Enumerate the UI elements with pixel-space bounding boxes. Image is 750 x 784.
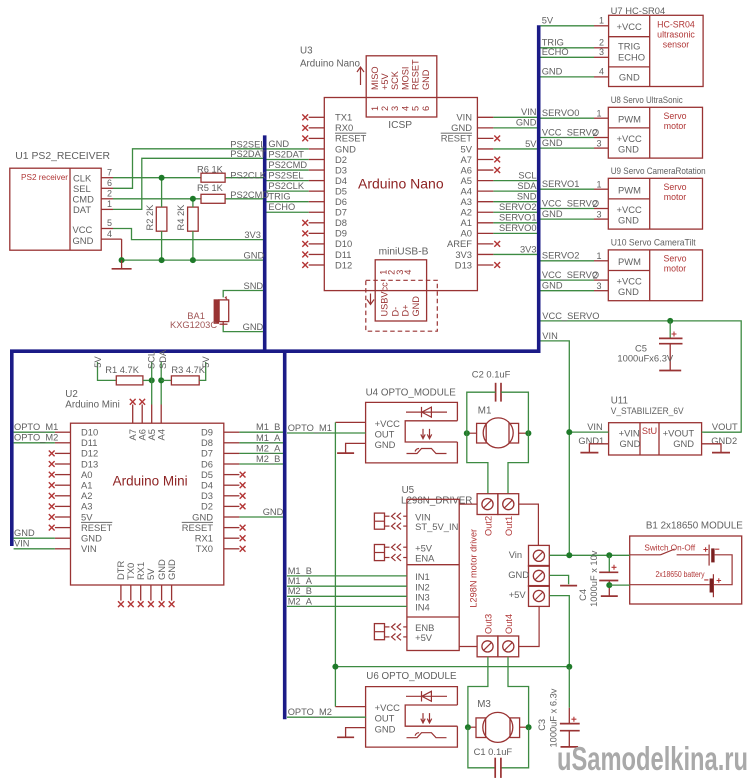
svg-text:D4: D4 xyxy=(335,175,347,186)
svg-text:+VCC: +VCC xyxy=(375,418,400,429)
junction +5V rail / right rail xyxy=(566,664,572,670)
svg-text:U4 OPTO_MODULE: U4 OPTO_MODULE xyxy=(366,387,457,398)
svg-text:A4: A4 xyxy=(155,429,166,440)
wire net GND to U2 GND xyxy=(14,537,55,539)
IC U2 Arduino Mini body xyxy=(71,423,224,585)
U8 pin 3 stub xyxy=(594,147,608,149)
svg-text:RESET: RESET xyxy=(335,133,367,144)
svg-text:GND: GND xyxy=(542,281,563,291)
buzzer BA1 KXG1203C xyxy=(214,299,219,324)
x-mark unconnected U2 left pin 5V xyxy=(49,514,55,520)
wire net Vin rail to battery xyxy=(549,554,629,556)
U2 bottom pin stub RX1 xyxy=(140,585,142,601)
svg-text:U3: U3 xyxy=(300,46,313,57)
x-mark unconnected U2 right pin RESET xyxy=(240,525,246,531)
svg-text:L298N_DRIVER: L298N_DRIVER xyxy=(401,496,472,507)
optocoupler module U4 body xyxy=(366,402,458,463)
wire M1 right to C2 xyxy=(501,392,528,433)
svg-text:D7: D7 xyxy=(335,207,347,218)
svg-text:M1_B: M1_B xyxy=(288,566,312,576)
wire +5V terminal down rail xyxy=(549,596,569,667)
svg-text:D13: D13 xyxy=(455,259,472,270)
svg-text:StU: StU xyxy=(642,426,657,436)
wire net 5V to U7 pin 1 xyxy=(541,25,595,27)
svg-text:TRIG: TRIG xyxy=(542,38,564,48)
svg-text:OPTO_M2: OPTO_M2 xyxy=(288,707,332,717)
svg-text:motor: motor xyxy=(664,263,687,273)
ICSP header box on U3 xyxy=(366,56,437,117)
U3 pin stub D11 xyxy=(309,253,325,255)
resistor R2 2K (pull-down) xyxy=(156,207,167,231)
x-mark unconnected U2 left pin D13 xyxy=(49,461,55,467)
U2 bottom pin stub DTR xyxy=(120,585,122,601)
wire net VIN to U2 VIN xyxy=(14,548,55,550)
svg-text:SERVO0: SERVO0 xyxy=(499,223,537,233)
U2 pin stub A1 (left) xyxy=(55,484,71,486)
svg-text:4: 4 xyxy=(107,229,112,239)
svg-text:sensor: sensor xyxy=(663,40,689,50)
screw terminal Out2 xyxy=(477,494,498,515)
svg-text:1: 1 xyxy=(597,180,602,190)
wire M1 right to Out1 xyxy=(508,433,528,494)
svg-text:5V: 5V xyxy=(461,143,473,154)
svg-text:PS2CLK: PS2CLK xyxy=(230,171,266,181)
wire net GND from U3 GND xyxy=(493,127,537,129)
svg-text:R1 4.7K: R1 4.7K xyxy=(105,365,139,375)
screw terminal Out1 xyxy=(498,494,519,515)
U10 pin 2 stub xyxy=(594,279,608,281)
svg-text:GND: GND xyxy=(263,507,284,517)
U3 pin stub 5V xyxy=(477,148,493,150)
U3 pin stub A5 xyxy=(477,180,493,182)
x-mark unconnected U2 right pin TX0 xyxy=(240,546,246,552)
svg-text:VOUT: VOUT xyxy=(712,422,738,432)
svg-text:ECHO: ECHO xyxy=(618,51,645,62)
svg-text:GND: GND xyxy=(243,322,264,332)
svg-text:SND: SND xyxy=(244,281,264,291)
svg-text:A6: A6 xyxy=(461,164,472,175)
U3 pin stub D13 xyxy=(477,264,493,266)
wire net PS2SEL from U1 SEL xyxy=(113,149,263,189)
U2 pin stub D8 (right) xyxy=(224,442,240,444)
svg-text:SDA: SDA xyxy=(517,181,537,191)
svg-text:3: 3 xyxy=(390,106,400,111)
U3 pin stub D12 xyxy=(309,264,325,266)
svg-text:3: 3 xyxy=(597,139,602,149)
U6 photo-transistor symbol xyxy=(407,733,447,738)
svg-text:3V3: 3V3 xyxy=(520,244,537,254)
wire net OPTO_M1 to U2 D10 xyxy=(14,431,55,433)
U5 pin stub + chevrons ST_5V_IN xyxy=(403,525,407,527)
svg-text:PS2SEL: PS2SEL xyxy=(230,140,265,150)
battery cell2 wire to box edge xyxy=(630,584,710,586)
svg-text:M2_A: M2_A xyxy=(256,443,281,453)
svg-text:PWM: PWM xyxy=(618,185,641,196)
wire net VIN from U3 VIN xyxy=(493,116,537,118)
wire net SERVO0 to U8 pin 1 xyxy=(541,117,595,119)
svg-text:M2_B: M2_B xyxy=(256,454,280,464)
svg-text:1: 1 xyxy=(597,109,602,119)
wire net 3V3 from U1 VCC xyxy=(113,229,263,240)
svg-text:C3: C3 xyxy=(537,719,547,731)
U5 pin stub + chevrons +5V xyxy=(403,636,407,638)
svg-text:A1: A1 xyxy=(81,480,92,491)
x-mark unconnected U2 bottom pin RX1 xyxy=(138,601,144,607)
U10 pin 3 stub xyxy=(594,290,608,292)
svg-text:VCC: VCC xyxy=(73,224,93,235)
wire +5V horizontal rail xyxy=(335,666,569,668)
svg-text:D3: D3 xyxy=(335,164,347,175)
svg-text:DAT: DAT xyxy=(73,204,91,215)
U2 pin stub A0 (left) xyxy=(55,474,71,476)
svg-text:TX1: TX1 xyxy=(335,112,352,123)
wire net SERVO2 from U3 A2 xyxy=(493,211,537,213)
svg-text:U1 PS2_RECEIVER: U1 PS2_RECEIVER xyxy=(15,151,110,162)
svg-text:R6 1K: R6 1K xyxy=(197,164,224,174)
wire net M2_B from U2 D6 xyxy=(239,463,283,465)
svg-text:KXG1203C: KXG1203C xyxy=(170,320,217,330)
svg-text:3: 3 xyxy=(599,47,604,57)
driver U5 L298N body xyxy=(407,499,459,650)
svg-text:Out1: Out1 xyxy=(504,516,514,536)
svg-text:Vin: Vin xyxy=(509,549,522,560)
sheet frame: vertical navy border left of Arduino Nano sheet xyxy=(263,135,267,351)
svg-text:D5: D5 xyxy=(335,185,347,196)
svg-text:5V: 5V xyxy=(81,511,93,522)
x-mark unconnected U3 left pin D8 xyxy=(302,220,308,226)
x-mark unconnected U3 right pin RESET xyxy=(494,136,500,142)
wire SDA rail to R3 xyxy=(161,379,171,381)
junction R4 bottom on GND wire xyxy=(190,257,196,263)
svg-text:VCC_SERVO: VCC_SERVO xyxy=(542,198,599,208)
U5 pin stub + chevrons ENA xyxy=(403,557,407,559)
svg-text:GND: GND xyxy=(244,250,265,260)
x-mark unconnected U2 right pin D5 xyxy=(240,472,246,478)
svg-text:1: 1 xyxy=(370,106,380,111)
U6 light arrows xyxy=(421,713,432,723)
svg-text:RESET: RESET xyxy=(441,133,473,144)
wire U6 +VCC to vertical rail xyxy=(335,706,366,708)
wire net PS2CMD from U1 CMD xyxy=(113,198,201,200)
U2 pin stub D6 (right) xyxy=(224,463,240,465)
svg-text:uSamodelkina.ru: uSamodelkina.ru xyxy=(557,740,748,777)
screw terminal +5V xyxy=(529,586,550,607)
net SCL rail (rotated label) xyxy=(151,362,153,405)
svg-text:6: 6 xyxy=(107,178,112,188)
wire M1 left to C2 xyxy=(467,392,496,433)
wire M3 right to C1 xyxy=(501,727,529,768)
svg-text:motor: motor xyxy=(664,121,687,131)
svg-text:PS2DAT: PS2DAT xyxy=(230,149,266,159)
U2 pin stub A3 (left) xyxy=(55,505,71,507)
wire net M2_A to U5 xyxy=(287,605,407,607)
x-mark unconnected U3 right pin A6 xyxy=(494,167,500,173)
svg-text:U9 Servo CameraRotation: U9 Servo CameraRotation xyxy=(611,166,706,176)
U11 GND1 pin + ground symbol xyxy=(589,444,608,453)
svg-text:+5V: +5V xyxy=(509,589,527,600)
wire battery minus to C4 xyxy=(609,584,629,586)
U3 pin stub RESET xyxy=(309,137,325,139)
svg-text:Arduino Mini: Arduino Mini xyxy=(65,400,119,411)
svg-text:5: 5 xyxy=(411,106,421,111)
svg-text:M1: M1 xyxy=(478,406,492,417)
svg-text:PS2SEL: PS2SEL xyxy=(268,170,303,180)
wire net GND to U9 pin 3 xyxy=(541,218,595,220)
screw terminal Out3 xyxy=(477,636,498,657)
U3 pin stub GND xyxy=(309,148,325,150)
U2 pin stub D7 (right) xyxy=(224,452,240,454)
resistor R4 2K (pull-down) xyxy=(188,207,199,231)
U3 pin stub A6 xyxy=(477,169,493,171)
wire net GND to U3 GND xyxy=(267,148,309,150)
U3 pin stub RESET xyxy=(477,137,493,139)
svg-text:V_STABILIZER_6V: V_STABILIZER_6V xyxy=(611,406,685,416)
x-mark unconnected U3 right pin A7 xyxy=(494,157,500,163)
svg-text:CLK: CLK xyxy=(73,172,92,183)
U2 top pin stub A5 xyxy=(151,405,153,424)
U8 pin 1 stub xyxy=(594,117,608,119)
U2 pin stub D11 (left) xyxy=(55,442,71,444)
wire net ECHO to U3 D7 xyxy=(267,211,309,213)
wire net SDA from U3 A4 xyxy=(493,190,537,192)
x-mark unconnected U3 left pin D11 xyxy=(302,252,308,258)
svg-text:D+: D+ xyxy=(400,304,410,316)
svg-text:GND: GND xyxy=(268,139,289,149)
svg-text:R5 1K: R5 1K xyxy=(197,183,224,193)
svg-text:5V: 5V xyxy=(542,16,554,26)
svg-text:+VCC: +VCC xyxy=(617,204,642,215)
svg-text:D8: D8 xyxy=(201,437,213,448)
U11 pin VIN wire xyxy=(569,431,608,433)
wire net 5V from U3 5V xyxy=(493,148,537,150)
svg-text:CMD: CMD xyxy=(73,193,95,204)
svg-text:B1 2x18650 MODULE: B1 2x18650 MODULE xyxy=(646,521,743,532)
ground symbol below U1 pin 4 xyxy=(121,260,123,268)
U3 pin stub D7 xyxy=(309,211,325,213)
svg-text:5V: 5V xyxy=(145,568,156,580)
U4 light arrows xyxy=(421,429,432,439)
svg-text:MOSI: MOSI xyxy=(400,67,410,90)
jumper connector at U5 VIN/ST_5V_IN xyxy=(374,513,384,529)
svg-text:motor: motor xyxy=(664,192,687,202)
x-mark unconnected U2 pin A6 xyxy=(139,399,145,405)
svg-text:D7: D7 xyxy=(201,448,213,459)
svg-text:MISO: MISO xyxy=(370,67,380,90)
U3 pin stub A7 xyxy=(477,159,493,161)
IC U3 Arduino Nano body xyxy=(324,98,477,291)
wire Out4 to +5V terminal xyxy=(519,606,539,646)
svg-text:A3: A3 xyxy=(461,196,472,207)
svg-text:VCC_SERVO: VCC_SERVO xyxy=(542,270,599,280)
U3 pin stub A4 xyxy=(477,190,493,192)
svg-text:GND: GND xyxy=(192,511,213,522)
svg-text:SERVO0: SERVO0 xyxy=(542,108,580,118)
U2 top pin stub A6 xyxy=(141,405,143,424)
wire net 3V3 from U3 3V3 xyxy=(493,253,537,255)
svg-text:5: 5 xyxy=(107,218,112,228)
U11 VOUT pin wire xyxy=(702,431,742,433)
wire net PS2DAT from U1 DAT xyxy=(113,158,263,209)
wire net SCL from U3 A5 xyxy=(493,180,537,182)
U9 pin 3 stub xyxy=(594,218,608,220)
svg-text:A2: A2 xyxy=(461,207,472,218)
U11 GND2 pin + ground symbol xyxy=(702,444,721,453)
wire net PS2CMD to U3 D3 xyxy=(267,169,309,171)
U10 pin 1 stub xyxy=(594,260,608,262)
svg-text:1: 1 xyxy=(599,16,604,26)
wire net VCC_SERVO to U9 pin 2 xyxy=(541,208,595,210)
svg-text:1000uF x 6.3v: 1000uF x 6.3v xyxy=(548,688,558,747)
svg-text:GND: GND xyxy=(618,286,639,297)
svg-text:A1: A1 xyxy=(461,217,472,228)
U8 pin 2 stub xyxy=(594,137,608,139)
svg-text:D12: D12 xyxy=(81,448,98,459)
wire net GND from buzzer xyxy=(223,326,263,332)
U2 pin stub D5 (right) xyxy=(224,474,240,476)
svg-text:1: 1 xyxy=(597,251,602,261)
svg-text:SCL: SCL xyxy=(147,351,157,369)
resistor R3 4.7K xyxy=(171,376,199,385)
servo module U8 body xyxy=(608,107,702,158)
svg-text:RESET: RESET xyxy=(411,59,421,90)
U7 pin 3 stub xyxy=(594,56,609,58)
svg-text:3: 3 xyxy=(597,210,602,220)
svg-text:D8: D8 xyxy=(335,217,347,228)
svg-text:U10 Servo CameraTilt: U10 Servo CameraTilt xyxy=(611,237,696,247)
svg-text:D6: D6 xyxy=(201,458,213,469)
junction M3 right xyxy=(526,724,532,730)
svg-text:Out2: Out2 xyxy=(484,516,494,536)
svg-text:PS2CMD: PS2CMD xyxy=(230,190,269,200)
motor M1 (circle + terminals) xyxy=(477,423,487,443)
svg-text:+VIN: +VIN xyxy=(619,428,640,439)
junction R2 bottom on GND wire xyxy=(159,257,165,263)
svg-text:VCC_SERVO: VCC_SERVO xyxy=(542,311,599,321)
U2 bottom pin stub 5V xyxy=(150,585,152,601)
U7 pin 4 stub xyxy=(594,76,609,78)
U3 pin stub D4 xyxy=(309,180,325,182)
junction SDA at R3 xyxy=(158,377,164,383)
svg-text:SCL: SCL xyxy=(518,170,536,180)
svg-text:GND1: GND1 xyxy=(578,436,604,446)
x-mark unconnected U2 left pin A2 xyxy=(49,493,55,499)
svg-text:6: 6 xyxy=(421,106,431,111)
U2 pin stub A2 (left) xyxy=(55,495,71,497)
svg-text:RX0: RX0 xyxy=(335,122,353,133)
U9 pin 1 stub xyxy=(594,188,608,190)
svg-text:HC-SR04: HC-SR04 xyxy=(657,20,695,30)
miniUSB-B dashed outline xyxy=(366,280,438,331)
x-mark unconnected U3 right pin D13 xyxy=(494,262,500,268)
U3 pin stub D8 xyxy=(309,222,325,224)
U3 pin stub D10 xyxy=(309,243,325,245)
net stub 5V (right, rotated label) xyxy=(199,362,206,380)
svg-text:M2_A: M2_A xyxy=(288,596,313,606)
U2 pin stub D4 (right) xyxy=(224,484,240,486)
svg-text:SERVO2: SERVO2 xyxy=(542,251,580,261)
x-mark unconnected U2 bottom pin DTR xyxy=(118,601,124,607)
U3 pin stub A1 xyxy=(477,222,493,224)
svg-text:GND: GND xyxy=(375,723,396,734)
U1 pin 2 stub (CMD) xyxy=(101,198,113,200)
svg-text:D2: D2 xyxy=(335,154,347,165)
battery cell 2 (bottom) xyxy=(712,574,714,597)
wire net OPTO_M2 to U6 OUT xyxy=(287,716,366,718)
svg-text:2: 2 xyxy=(107,189,112,199)
U6 GND pin wire + ground symbol xyxy=(346,728,366,737)
x-mark unconnected U2 bottom pin GND xyxy=(159,601,165,607)
svg-text:ECHO: ECHO xyxy=(542,47,569,57)
svg-text:5V: 5V xyxy=(93,356,103,368)
jumper connector at U5 ENB/+5V xyxy=(374,624,384,640)
svg-text:VIN: VIN xyxy=(14,539,30,549)
U5 pin stub + chevrons +5V xyxy=(403,546,407,548)
svg-text:M1_A: M1_A xyxy=(256,433,281,443)
svg-text:GND: GND xyxy=(618,144,639,155)
U3 pin stub D9 xyxy=(309,232,325,234)
svg-text:SND: SND xyxy=(517,192,537,202)
x-mark unconnected U3 left pin RX0 xyxy=(302,125,308,131)
U7 pin 2 stub xyxy=(594,47,609,49)
svg-text:5V: 5V xyxy=(201,356,211,368)
svg-text:D-: D- xyxy=(390,307,400,317)
U6 LED diode symbol xyxy=(406,691,447,701)
U3 pin stub AREF xyxy=(477,243,493,245)
junction R4 top on PS2CMD wire xyxy=(190,196,196,202)
svg-text:PWM: PWM xyxy=(618,256,641,267)
wire R1 to SCL rail xyxy=(143,379,152,381)
svg-text:D2: D2 xyxy=(201,501,213,512)
svg-text:3V3: 3V3 xyxy=(455,249,472,260)
svg-text:GND: GND xyxy=(618,215,639,226)
svg-text:VIN: VIN xyxy=(542,331,558,341)
svg-text:Servo: Servo xyxy=(664,182,687,192)
svg-text:A0: A0 xyxy=(81,469,92,480)
junction VIN at U11 xyxy=(566,429,572,435)
svg-text:D6: D6 xyxy=(335,196,347,207)
svg-text:SDA: SDA xyxy=(158,349,168,369)
svg-text:+VCC: +VCC xyxy=(617,276,642,287)
svg-text:PS2CMD: PS2CMD xyxy=(268,160,307,170)
svg-text:VIN: VIN xyxy=(81,543,97,554)
svg-text:M3: M3 xyxy=(477,699,491,710)
wire net SERVO2 to U10 pin 1 xyxy=(541,260,595,262)
svg-text:+5V: +5V xyxy=(415,632,433,643)
wire Out4 to M3 right xyxy=(508,657,529,727)
svg-text:VIN: VIN xyxy=(521,107,537,117)
svg-text:5V: 5V xyxy=(525,139,537,149)
svg-text:D4: D4 xyxy=(201,480,213,491)
x-mark unconnected U2 left pin A3 xyxy=(49,504,55,510)
U4 LED diode symbol xyxy=(406,407,447,417)
U2 bottom pin stub TX0 xyxy=(130,585,132,601)
x-mark unconnected U2 left pin D12 xyxy=(49,451,55,457)
U2 pin stub D12 (left) xyxy=(55,452,71,454)
svg-text:1000uF x 10v: 1000uF x 10v xyxy=(589,550,599,607)
svg-text:VIN: VIN xyxy=(587,422,603,432)
svg-text:GND: GND xyxy=(542,209,563,219)
svg-text:D9: D9 xyxy=(335,228,347,239)
svg-text:A7: A7 xyxy=(461,154,472,165)
svg-text:A5: A5 xyxy=(461,175,472,186)
svg-text:M2_B: M2_B xyxy=(288,586,312,596)
svg-text:1000uFx6.3V: 1000uFx6.3V xyxy=(617,353,674,364)
svg-text:Servo: Servo xyxy=(664,111,687,121)
svg-text:7: 7 xyxy=(107,167,112,177)
svg-text:VIN: VIN xyxy=(456,112,472,123)
U3 pin stub D2 xyxy=(309,159,325,161)
U2 pin stub D2 (right) xyxy=(224,505,240,507)
